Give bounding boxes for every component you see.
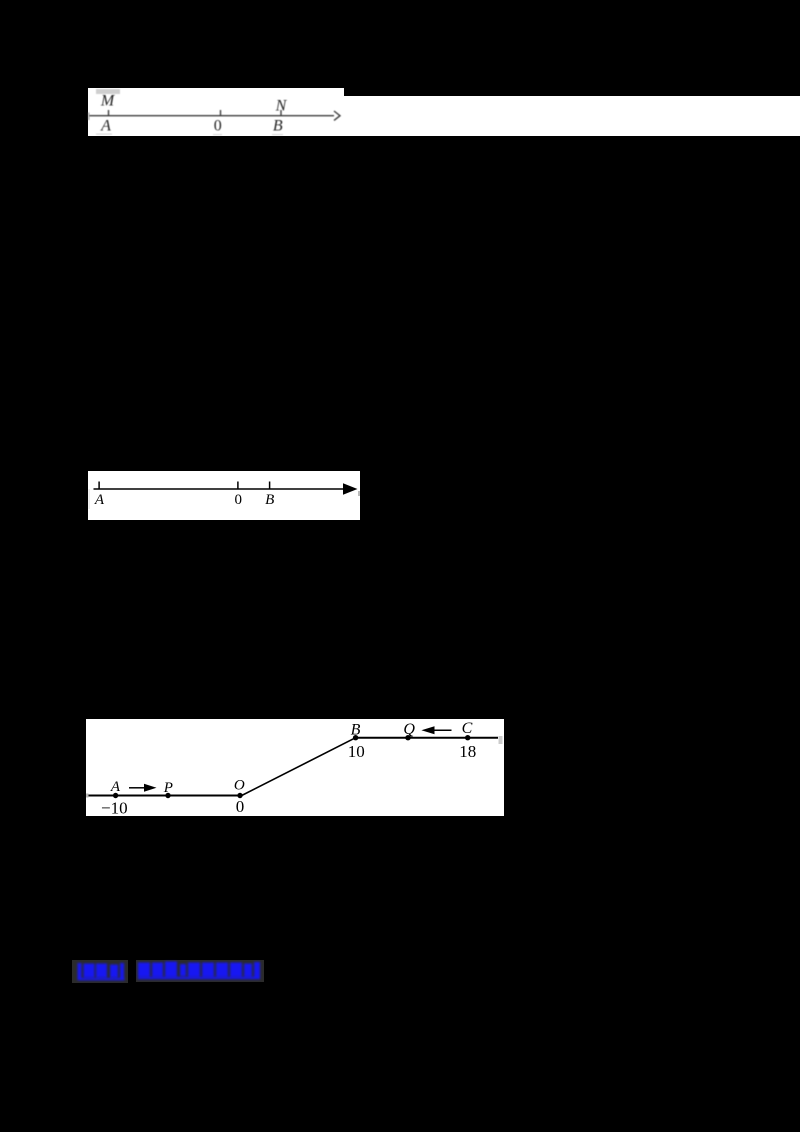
svg-text:N: N (275, 98, 288, 115)
arrow A to P (129, 787, 145, 789)
grey stub right of upper line (499, 736, 503, 744)
arrowhead (solid) (343, 483, 358, 495)
svg-text:Q: Q (404, 721, 416, 738)
svg-text:B: B (351, 722, 361, 739)
upper segment B-edge (356, 737, 498, 739)
tick 0 (236, 482, 238, 490)
svg-text:B: B (273, 118, 283, 135)
faint left edge mark (88, 489, 89, 509)
blue link text 2 (136, 960, 265, 982)
dot Q (406, 735, 411, 740)
tick A (98, 482, 100, 490)
figure image 1: number line with M,N over A,0,B (88, 88, 344, 136)
grey stub left of lower line (86, 794, 89, 798)
figure image 3: moving points A,P,O,B,Q,C (86, 719, 504, 816)
figure 2 drawing (88, 471, 360, 520)
faint underline under 0 (213, 134, 222, 135)
left end grey tick (88, 113, 89, 121)
figure 3 drawing (86, 719, 504, 816)
tick B (280, 110, 282, 116)
number line 2 axis (93, 488, 344, 490)
number line 1 axis (90, 115, 335, 117)
svg-text:0: 0 (236, 797, 245, 816)
svg-text:C: C (462, 720, 473, 737)
diagonal O-B (242, 738, 356, 796)
blue link text 1 (72, 960, 128, 983)
svg-text:0: 0 (214, 118, 222, 135)
svg-text:18: 18 (459, 742, 476, 761)
dot A (113, 793, 118, 798)
tick B (268, 482, 270, 490)
grey smudge box above M (96, 89, 120, 94)
svg-text:10: 10 (348, 742, 365, 761)
dot C (465, 735, 470, 740)
svg-text:A: A (100, 118, 111, 135)
faint underline under B (272, 134, 283, 135)
svg-text:0: 0 (234, 492, 242, 508)
figure image 2: number line A,0,B (88, 471, 360, 520)
arrow C to Q (434, 729, 452, 731)
dot O (238, 793, 243, 798)
tick 0 (220, 110, 222, 116)
svg-text:B: B (265, 492, 274, 508)
svg-text:−10: −10 (101, 799, 128, 816)
figure 1 drawing (88, 88, 344, 136)
link chip 1 (72, 960, 128, 983)
grey nub after arrow (358, 491, 360, 496)
svg-text:P: P (163, 780, 173, 796)
svg-text:O: O (234, 778, 245, 794)
faint underline under A (96, 134, 112, 135)
svg-text:A: A (110, 779, 121, 795)
link chip 2 (136, 960, 264, 982)
svg-text:A: A (93, 492, 104, 508)
svg-text:M: M (100, 93, 116, 110)
lower segment A-O (86, 795, 242, 797)
dot P (166, 793, 171, 798)
arrowhead (open) (334, 111, 340, 120)
dot B (353, 735, 358, 740)
tick A (108, 110, 110, 116)
highlight band right of figure 1 (344, 96, 800, 136)
